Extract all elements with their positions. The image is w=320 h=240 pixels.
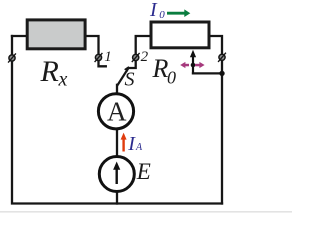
svg-text:I: I xyxy=(149,0,158,21)
svg-text:x: x xyxy=(58,69,68,91)
svg-text:R: R xyxy=(152,54,169,83)
svg-text:R: R xyxy=(40,55,59,88)
svg-text:A: A xyxy=(107,96,127,126)
svg-text:I: I xyxy=(127,133,136,155)
svg-text:E: E xyxy=(136,159,151,184)
svg-text:A: A xyxy=(135,142,143,153)
svg-text:1: 1 xyxy=(104,49,112,65)
svg-text:S: S xyxy=(125,69,135,91)
svg-text:0: 0 xyxy=(167,67,176,87)
svg-text:2: 2 xyxy=(141,49,149,65)
svg-text:0: 0 xyxy=(159,9,165,21)
